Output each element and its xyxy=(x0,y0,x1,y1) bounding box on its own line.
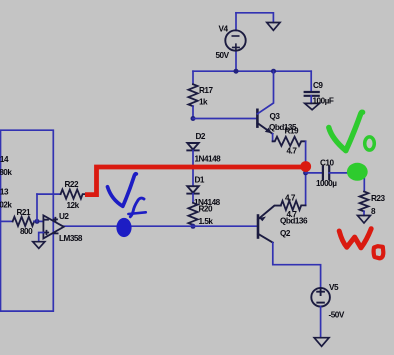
svg-text:1000µ: 1000µ xyxy=(316,179,337,188)
wire D2 to D1 xyxy=(192,150,194,186)
svg-text:1k: 1k xyxy=(199,98,208,107)
svg-text:LM358: LM358 xyxy=(59,234,83,243)
svg-text:1N4148: 1N4148 xyxy=(195,155,222,164)
svg-text:4.7: 4.7 xyxy=(287,147,298,156)
wire R21 left lead xyxy=(0,220,13,222)
wire opamp output to Q2 base xyxy=(64,225,257,227)
svg-text:D1: D1 xyxy=(195,176,205,185)
svg-text:V4: V4 xyxy=(219,25,229,34)
svg-text:V5: V5 xyxy=(329,283,339,292)
ground R23 xyxy=(358,216,371,224)
svg-text:R20: R20 xyxy=(199,205,213,214)
transistor Q2 xyxy=(258,206,321,288)
svg-text:1.5k: 1.5k xyxy=(199,217,214,226)
node R20 output wire xyxy=(191,224,196,229)
wire R17 top lead xyxy=(192,71,194,84)
svg-text:4.7: 4.7 xyxy=(287,210,298,219)
wire rail to C9 xyxy=(310,71,312,91)
svg-text:100µF: 100µF xyxy=(313,97,334,106)
svg-text:R23: R23 xyxy=(371,194,385,203)
node C10 tap xyxy=(303,170,308,175)
voltage source V4 xyxy=(225,30,245,50)
wire R20 bottom lead xyxy=(192,225,194,226)
wire top +50V rail xyxy=(193,70,311,72)
red annotation Wa W xyxy=(339,229,371,248)
wire Vo node down to R23 xyxy=(363,173,365,192)
wire base of Q3 xyxy=(193,118,257,120)
svg-text:R21: R21 xyxy=(17,208,31,217)
wire R23 to ground xyxy=(363,211,365,215)
wire feedback horizontal to R22 xyxy=(37,193,61,195)
resistor R23 xyxy=(360,192,369,212)
Q2 emitter arrow xyxy=(259,217,266,222)
wire V5 to ground xyxy=(320,307,322,338)
svg-text:R14: R14 xyxy=(0,155,9,164)
svg-text:R13: R13 xyxy=(0,188,9,197)
ground opamp xyxy=(33,242,45,249)
wire plus input to ground xyxy=(39,233,44,242)
wire C10 right lead xyxy=(329,172,364,174)
ground C9 xyxy=(305,103,320,109)
green annotation Vo o xyxy=(365,137,375,150)
wire C9 to ground xyxy=(310,96,312,104)
resistor R20 xyxy=(188,203,197,225)
red junction dot xyxy=(300,161,311,172)
diode D2 xyxy=(187,143,198,150)
resistor R21 xyxy=(13,217,35,226)
svg-text:D2: D2 xyxy=(196,132,206,141)
svg-text:U2: U2 xyxy=(59,212,69,221)
Q3 emitter arrow xyxy=(265,128,272,134)
wire V4 top to ground xyxy=(236,13,273,23)
node Q3 collector rail xyxy=(271,69,276,74)
wire V4 top stub xyxy=(235,13,237,31)
feedback box wire xyxy=(1,130,54,311)
wire V4 bottom stub xyxy=(235,51,237,72)
svg-text:C10: C10 xyxy=(320,159,334,168)
svg-text:102k: 102k xyxy=(0,201,12,210)
svg-text:680k: 680k xyxy=(0,168,12,177)
capacitor C9 xyxy=(305,92,319,96)
wire feedback vertical xyxy=(36,194,38,221)
green annotation Vo V xyxy=(329,112,363,150)
transistor Q3 xyxy=(257,71,273,141)
node R17 D2 base xyxy=(191,116,196,121)
resistor R17 xyxy=(188,84,197,106)
red annotation Wa a xyxy=(374,246,384,258)
resistor R19 xyxy=(273,137,306,146)
blue annotation dot on wire xyxy=(116,218,131,237)
svg-text:R19: R19 xyxy=(285,127,299,136)
svg-text:R17: R17 xyxy=(199,86,213,95)
blue annotation Vf V xyxy=(108,174,137,207)
op-amp U2 xyxy=(43,215,63,238)
ground top right xyxy=(267,23,280,31)
svg-text:800: 800 xyxy=(20,227,33,236)
svg-text:R22: R22 xyxy=(65,180,79,189)
voltage source V5 xyxy=(311,288,330,307)
svg-text:12k: 12k xyxy=(67,201,80,210)
svg-text:50V: 50V xyxy=(216,51,230,60)
svg-text:C9: C9 xyxy=(313,81,323,90)
blue annotation Vf f xyxy=(128,198,145,217)
svg-text:4.7: 4.7 xyxy=(285,194,296,203)
svg-text:-50V: -50V xyxy=(329,311,345,320)
node minus input xyxy=(35,219,40,224)
node V4 rail xyxy=(234,69,239,74)
green annotation output blob xyxy=(347,163,368,181)
wire R17 bottom lead xyxy=(192,106,194,118)
resistor 4.7 Q2 collector xyxy=(281,201,306,210)
red feedback wire annotation xyxy=(85,167,306,195)
resistor R22 xyxy=(61,190,86,199)
diode D1 xyxy=(187,186,198,193)
capacitor C10 xyxy=(323,167,329,180)
wire D1 to R20 xyxy=(192,194,194,203)
svg-text:Q2: Q2 xyxy=(280,229,291,238)
wire R21 to opamp xyxy=(34,220,43,222)
wire output node vertical xyxy=(305,141,307,205)
ground V5 xyxy=(314,338,329,347)
wire C10 left lead xyxy=(306,172,323,174)
svg-text:Q3: Q3 xyxy=(270,112,281,121)
